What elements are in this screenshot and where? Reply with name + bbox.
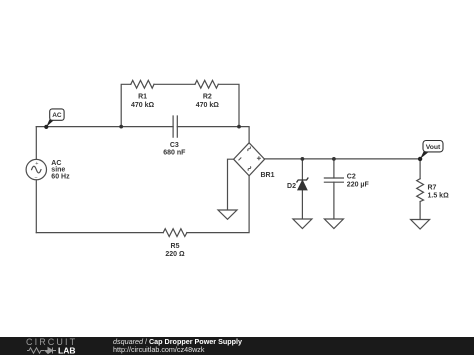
svg-text:R1: R1: [138, 94, 147, 101]
wire: [333, 182, 335, 219]
svg-text:R7: R7: [428, 185, 437, 192]
svg-text:D2: D2: [287, 183, 296, 190]
svg-text:LAB: LAB: [58, 346, 75, 355]
AC source +/-: [34, 161, 38, 182]
footer text: [113, 337, 242, 354]
zener diode D2: [297, 178, 309, 190]
svg-text:C2: C2: [347, 174, 356, 181]
node flag AC: [44, 109, 64, 129]
wire: [228, 159, 234, 210]
ground: [324, 219, 343, 229]
svg-text:470 kΩ: 470 kΩ: [131, 102, 155, 109]
wire: [419, 202, 421, 220]
svg-text:470 kΩ: 470 kΩ: [196, 102, 220, 109]
node flag Vout: [418, 141, 443, 162]
bridge rectifier BR1: [234, 143, 265, 176]
wire: [333, 159, 335, 178]
svg-text:http://circuitlab.com/cz48wzk: http://circuitlab.com/cz48wzk: [113, 345, 205, 354]
CircuitLab logo: [26, 337, 77, 355]
node junction: [301, 157, 305, 161]
bridge interior marks: [239, 147, 261, 171]
node junction: [237, 125, 241, 129]
wire: [301, 190, 303, 219]
ground: [218, 210, 237, 219]
wire: [301, 159, 303, 180]
voltage source V1: [26, 159, 46, 179]
svg-text:AC: AC: [52, 112, 62, 119]
svg-text:R2: R2: [203, 94, 212, 101]
wire: [177, 127, 249, 143]
wire: [218, 84, 239, 126]
capacitor C3: [173, 116, 177, 137]
wire: [154, 83, 195, 85]
svg-text:Vout: Vout: [426, 144, 441, 151]
resistor R2: [195, 80, 218, 88]
resistor R7: [417, 179, 424, 202]
svg-text:220 µF: 220 µF: [347, 182, 370, 189]
wire: [187, 176, 249, 233]
resistor R1: [131, 80, 154, 88]
svg-text:+: +: [35, 161, 38, 167]
svg-text:−: −: [34, 176, 37, 182]
svg-text:680 nF: 680 nF: [163, 149, 186, 156]
ground: [411, 220, 430, 230]
junction dots: [119, 125, 336, 161]
capacitor C2: [324, 178, 343, 182]
svg-text:BR1: BR1: [261, 172, 275, 179]
node junction: [332, 157, 336, 161]
node junction: [119, 125, 123, 129]
wire: [35, 180, 37, 233]
wire: [419, 159, 421, 179]
wire: [121, 84, 131, 126]
wire: [36, 232, 163, 234]
ground: [293, 219, 312, 229]
svg-text:1.5 kΩ: 1.5 kΩ: [428, 192, 450, 199]
wire: [35, 127, 37, 160]
svg-text:R5: R5: [171, 243, 180, 250]
resistor R5: [163, 229, 187, 237]
wire: [36, 126, 173, 128]
svg-text:60 Hz: 60 Hz: [51, 173, 70, 180]
footer bar: [0, 337, 474, 355]
wire: [265, 158, 421, 160]
svg-text:220 Ω: 220 Ω: [165, 251, 185, 258]
svg-text:C3: C3: [170, 142, 179, 149]
